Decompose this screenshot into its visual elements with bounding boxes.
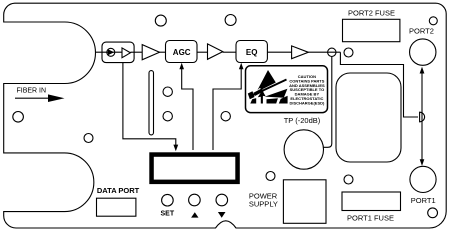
wire TP tap — [323, 57, 331, 148]
mounting hole H9 — [429, 17, 437, 25]
svg-text:FIBER IN: FIBER IN — [17, 87, 47, 94]
svg-text:AGC: AGC — [173, 48, 191, 57]
mounting hole H12 — [428, 208, 438, 218]
amplifier triangle A2 — [208, 44, 223, 59]
FIBER IN arrow line — [15, 97, 50, 99]
mounting hole H7 — [221, 112, 230, 121]
wire amp3 to hole — [308, 51, 340, 53]
mounting hole H10 — [266, 172, 275, 181]
wire EQ to amp3 — [267, 51, 291, 53]
arrow into AGC — [179, 63, 184, 70]
PORT1 FUSE rect — [342, 192, 401, 211]
POWER SUPPLY box — [283, 180, 326, 224]
svg-text:PORT2: PORT2 — [409, 26, 434, 35]
vertical slot cutout — [149, 71, 154, 135]
PORT1 circle — [410, 166, 436, 192]
arrow to PORT2 — [420, 67, 425, 74]
connector bump — [420, 112, 425, 122]
big rounded rect module — [336, 73, 401, 162]
AGC box — [166, 41, 198, 63]
DOWN button circle — [216, 194, 228, 206]
svg-text:SET: SET — [161, 211, 175, 218]
mounting hole H11 — [344, 175, 353, 184]
mounting hole H2 — [84, 134, 93, 143]
TP test point circle — [284, 130, 323, 169]
DATA PORT rect — [97, 198, 136, 216]
amplifier triangle A1 — [142, 45, 159, 60]
svg-text:DISCHARGE(ESD): DISCHARGE(ESD) — [289, 100, 325, 105]
detector circle symbol — [107, 48, 115, 56]
mounting hole H1 — [13, 112, 24, 123]
amplifier triangle A3 — [292, 46, 309, 59]
DOWN triangle — [218, 212, 226, 218]
svg-text:DATA PORT: DATA PORT — [97, 186, 140, 195]
detector box U1 — [102, 42, 134, 63]
wire hole on line — [328, 48, 336, 56]
LCD display — [152, 155, 238, 182]
mounting hole H5 — [163, 87, 172, 96]
wire detector to amp1 — [130, 51, 143, 53]
mounting hole H8 — [344, 48, 353, 57]
ESD label rect — [246, 66, 328, 113]
UP button circle — [189, 194, 201, 206]
arrow to PORT1 — [420, 159, 425, 166]
UP triangle — [191, 212, 198, 217]
wire amp1 to AGC — [159, 51, 166, 53]
wire to splitter — [340, 52, 418, 117]
wire amp2 to EQ — [223, 51, 236, 53]
mounting hole H3 — [155, 15, 166, 26]
EQ box — [236, 41, 267, 63]
wire AGC control — [182, 67, 193, 150]
caution text — [289, 74, 325, 105]
arrow into EQ — [239, 63, 244, 70]
wire detector monitor — [123, 63, 176, 146]
SET button circle — [162, 194, 174, 206]
mounting hole H4 — [225, 15, 236, 26]
arrow into display — [173, 145, 178, 152]
svg-text:PORT1 FUSE: PORT1 FUSE — [347, 214, 394, 223]
svg-text:TP (-20dB): TP (-20dB) — [284, 116, 321, 125]
internal triangle amp — [122, 48, 130, 58]
PORT2 circle — [410, 39, 436, 65]
mounting hole H6 — [163, 112, 172, 121]
wire AGC to amp2 — [197, 51, 208, 53]
wire EQ control — [213, 67, 241, 150]
detector arrow symbol — [108, 49, 114, 55]
svg-text:EQ: EQ — [246, 48, 258, 57]
ESD symbol hand in triangle — [248, 70, 288, 104]
PORT2 FUSE rect — [343, 19, 400, 41]
wire fiber input — [96, 51, 123, 53]
wire splitter vertical — [421, 71, 423, 161]
svg-text:SUPPLY: SUPPLY — [249, 200, 278, 209]
svg-text:PORT2 FUSE: PORT2 FUSE — [348, 9, 395, 18]
FIBER IN arrowhead — [48, 94, 65, 102]
svg-text:PORT1: PORT1 — [411, 196, 436, 205]
